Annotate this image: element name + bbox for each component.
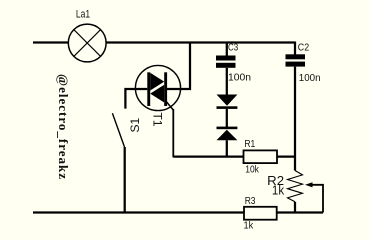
wire switch bottom lead <box>124 147 126 213</box>
triac right bar <box>164 72 167 106</box>
wire triac MT2 lead <box>167 43 190 90</box>
wire C3 to diode <box>226 68 228 95</box>
triac T1 <box>135 65 180 110</box>
lamp La1 <box>68 24 106 62</box>
wire C3 branch top <box>226 43 228 57</box>
triac lower triangle <box>150 85 164 103</box>
wire between diodes <box>226 109 228 127</box>
triac left bar <box>147 72 150 106</box>
svg-text:C3: C3 <box>228 42 238 54</box>
capacitor C2 <box>286 54 306 66</box>
wire triac gate lead <box>166 101 174 157</box>
svg-text:La1: La1 <box>76 9 90 21</box>
svg-text:@electro_freakz: @electro_freakz <box>56 74 71 180</box>
wire R1 right <box>277 155 295 157</box>
svg-text:R3: R3 <box>245 195 256 207</box>
resistor R1 <box>244 150 278 163</box>
svg-text:100n: 100n <box>299 72 321 84</box>
svg-text:1k: 1k <box>272 182 285 197</box>
wire pot bottom lead <box>294 202 296 213</box>
svg-text:1k: 1k <box>244 220 254 232</box>
wire C2 down to pot <box>294 67 296 171</box>
wire top rail right of lamp <box>106 41 295 43</box>
wire triac MT1 lead <box>125 89 147 109</box>
svg-text:100n: 100n <box>228 72 251 84</box>
pot wiper arrow <box>305 182 313 187</box>
wire bottom rail right <box>277 211 324 213</box>
wire top rail corner to C2 <box>294 42 296 56</box>
wire diode to gate row <box>226 140 228 157</box>
wire top rail left of lamp <box>33 41 68 43</box>
svg-text:T1: T1 <box>151 113 165 127</box>
diode D2 <box>217 127 238 141</box>
svg-text:S1: S1 <box>128 117 142 132</box>
capacitor C3 <box>216 56 236 68</box>
wire gate row horizontal <box>173 155 243 157</box>
triac upper triangle <box>150 73 164 91</box>
wire bottom rail left <box>33 211 244 213</box>
svg-text:10k: 10k <box>245 163 259 175</box>
resistor R3 <box>244 207 277 220</box>
potentiometer R2 zigzag <box>288 171 303 202</box>
wire wiper lead <box>312 185 323 213</box>
diode D1 <box>217 95 238 109</box>
svg-text:C2: C2 <box>298 41 310 53</box>
switch S1 blade <box>112 113 124 147</box>
svg-text:R1: R1 <box>244 138 255 150</box>
